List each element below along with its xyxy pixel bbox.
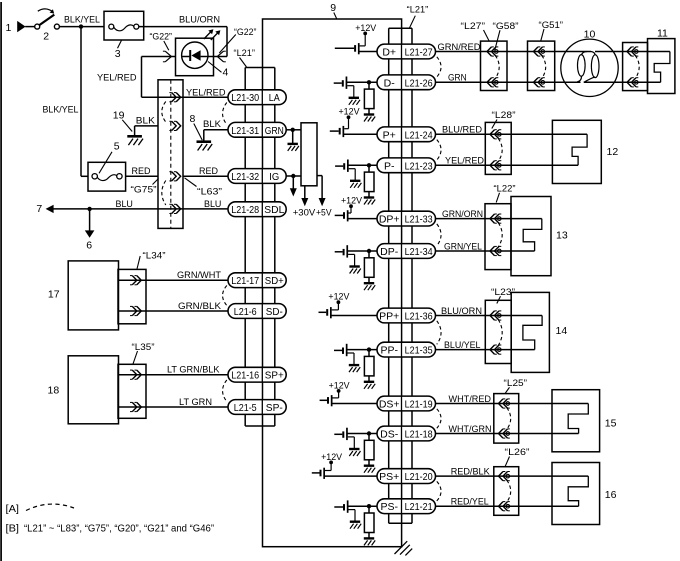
svg-text:PS-: PS- — [380, 501, 398, 513]
ground 8 — [190, 113, 213, 151]
svg-text:“G75”: “G75” — [131, 185, 157, 195]
chassis ground hatch — [395, 541, 413, 555]
wire BLU/ORN PP+ — [436, 306, 543, 316]
twisted pair arc SD+/SD- — [223, 286, 227, 306]
svg-text:BLK/YEL: BLK/YEL — [64, 15, 100, 25]
svg-text:GRN: GRN — [265, 125, 284, 137]
photocoupler 4 — [176, 29, 229, 78]
twisted pair arc — [437, 409, 441, 428]
connector G75/L63 column — [158, 80, 183, 229]
svg-text:“G58”: “G58” — [493, 21, 519, 31]
wire GRN/WHT — [118, 270, 228, 280]
wire RED/BLK — [436, 466, 589, 476]
svg-text:[B]: [B] — [6, 523, 20, 535]
wire RED/YEL — [436, 497, 579, 507]
svg-text:“G51”: “G51” — [539, 20, 564, 30]
connector L25 — [494, 378, 527, 443]
component 18 — [48, 356, 119, 424]
driver PP- with pulldown — [334, 344, 377, 372]
svg-text:WHT/GRN: WHT/GRN — [449, 424, 492, 434]
connector L34 — [118, 250, 166, 324]
svg-text:“L21” ~ “L83”, “G75”, “G20”, “: “L21” ~ “L83”, “G75”, “G20”, “G21” and “… — [24, 524, 215, 535]
driver DS+ with +12V supply — [320, 380, 377, 406]
wire LT GRN/BLK — [118, 365, 228, 375]
regulator box — [301, 123, 317, 186]
svg-text:“L28”: “L28” — [492, 110, 516, 120]
svg-text:+5V: +5V — [316, 208, 332, 218]
svg-text:8: 8 — [190, 113, 196, 125]
svg-text:SD-: SD- — [266, 306, 283, 318]
wire YEL/RED — [97, 57, 228, 98]
svg-text:PS+: PS+ — [379, 471, 399, 483]
svg-text:BLK/YEL: BLK/YEL — [43, 105, 79, 115]
connector L28 — [485, 110, 515, 174]
svg-text:16: 16 — [605, 489, 617, 501]
resistor pulldown D- — [364, 80, 375, 121]
svg-text:BLU/ORN: BLU/ORN — [441, 306, 482, 316]
connector G22 left chevron — [150, 32, 173, 62]
resistor pulldown DS- — [364, 431, 375, 472]
wire BLU/YEL — [436, 340, 535, 350]
wire D- right of generator — [584, 81, 661, 83]
svg-text:GRN/ORN: GRN/ORN — [442, 209, 483, 219]
svg-text:“L21”: “L21” — [234, 48, 256, 58]
svg-text:DS+: DS+ — [379, 399, 400, 411]
node 7 — [36, 203, 53, 215]
connector L26 — [494, 447, 530, 515]
terminal pill D- L21-26 — [377, 75, 436, 90]
svg-text:L21-35: L21-35 — [405, 345, 433, 357]
component 14 — [511, 292, 567, 372]
component 12 — [552, 120, 618, 183]
driver P+ with +12V supply — [330, 107, 377, 137]
svg-text:L21-18: L21-18 — [405, 429, 433, 441]
generator 10 — [561, 29, 618, 97]
driver P- with pulldown — [335, 160, 377, 188]
svg-text:4: 4 — [223, 67, 229, 79]
terminal pill DP+ L21-33 — [377, 211, 436, 226]
svg-text:+30V: +30V — [293, 208, 316, 218]
connector labels G75 L63 — [131, 178, 223, 197]
svg-text:D-: D- — [384, 77, 396, 89]
wire WHT/GRN — [436, 424, 579, 434]
+30V output — [293, 186, 316, 218]
svg-text:BLK: BLK — [136, 115, 156, 125]
terminal pill L21-32 IG — [228, 169, 286, 184]
svg-text:BLU/ORN: BLU/ORN — [179, 15, 220, 25]
terminal pill PS- L21-21 — [377, 499, 436, 514]
terminal pill L21-31 GRN — [228, 122, 286, 137]
svg-text:BLU: BLU — [204, 199, 221, 209]
terminal pill PP+ L21-36 — [377, 308, 436, 323]
connector L27/G58 — [461, 21, 519, 91]
resistor pulldown DP- — [364, 249, 375, 290]
svg-text:GRN/BLK: GRN/BLK — [178, 301, 222, 311]
svg-text:10: 10 — [584, 29, 596, 41]
terminal pill P+ L21-24 — [377, 127, 436, 142]
svg-text:L21-23: L21-23 — [405, 160, 433, 172]
wire BLK/YEL top — [59, 15, 104, 29]
ground 19 — [113, 110, 143, 146]
svg-text:“L35”: “L35” — [132, 342, 155, 352]
connector L23 — [485, 287, 515, 364]
svg-text:PP+: PP+ — [379, 311, 399, 323]
driver PS- with pulldown — [334, 500, 377, 528]
svg-text:L21-34: L21-34 — [405, 246, 433, 258]
svg-text:YEL/RED: YEL/RED — [97, 73, 137, 83]
terminal pill P- L21-23 — [377, 158, 436, 173]
legend B — [6, 523, 215, 535]
svg-text:17: 17 — [48, 288, 60, 300]
svg-text:+12V: +12V — [341, 196, 363, 206]
svg-text:SD+: SD+ — [265, 275, 284, 287]
svg-text:BLU/YEL: BLU/YEL — [444, 340, 481, 350]
wire GRN/BLK — [118, 301, 228, 311]
svg-text:GRN: GRN — [448, 72, 467, 82]
svg-text:2: 2 — [43, 31, 49, 43]
twisted pair arc SP+/SP- — [223, 380, 227, 402]
driver PP+ with +12V supply — [319, 292, 378, 319]
svg-text:L21-24: L21-24 — [405, 129, 433, 141]
svg-text:“L63”: “L63” — [197, 187, 222, 197]
svg-text:L21-31: L21-31 — [231, 125, 259, 137]
svg-text:“L34”: “L34” — [143, 250, 166, 260]
wire RED — [126, 166, 228, 176]
svg-text:6: 6 — [86, 240, 92, 252]
wire BLK left — [135, 115, 158, 126]
resistor pulldown P- — [364, 163, 375, 204]
driver DS- with pulldown — [334, 428, 377, 456]
driver DP+ with +12V supply — [335, 196, 377, 222]
svg-text:BLU: BLU — [116, 199, 133, 209]
svg-text:RED/BLK: RED/BLK — [451, 466, 491, 476]
svg-text:3: 3 — [115, 48, 121, 60]
svg-text:11: 11 — [657, 28, 668, 40]
svg-text:RED/YEL: RED/YEL — [451, 497, 489, 507]
driver D- with pulldown — [334, 77, 377, 105]
svg-text:L21-32: L21-32 — [231, 171, 259, 183]
svg-text:+12V: +12V — [329, 380, 351, 390]
svg-text:WHT/RED: WHT/RED — [449, 394, 492, 404]
connector L22 — [485, 184, 516, 270]
svg-text:IG: IG — [269, 171, 279, 183]
connector L35 — [118, 342, 155, 419]
svg-text:“L22”: “L22” — [494, 184, 516, 194]
svg-text:5: 5 — [114, 141, 120, 153]
svg-text:9: 9 — [330, 2, 336, 14]
svg-text:1: 1 — [6, 22, 12, 34]
terminal pill DS- L21-18 — [377, 426, 436, 441]
border frame left edge — [0, 2, 2, 561]
driver DP- with pulldown — [335, 245, 377, 273]
switch 2 — [35, 9, 60, 43]
driver D+ with +12V supply — [335, 23, 377, 55]
svg-text:SP-: SP- — [266, 402, 283, 414]
svg-text:L21-16: L21-16 — [231, 370, 259, 382]
terminal pill DS+ L21-19 — [377, 396, 436, 411]
wire GRN/RED — [436, 42, 592, 52]
svg-text:[A]: [A] — [6, 503, 20, 515]
wire GRN — [436, 72, 581, 82]
connector for component 11 — [623, 43, 648, 91]
connector L21 right column — [389, 4, 429, 523]
svg-text:13: 13 — [556, 230, 568, 242]
component 16 — [552, 463, 617, 525]
component 15 — [552, 390, 617, 452]
ECU box 9 — [263, 2, 402, 547]
svg-text:PP-: PP- — [380, 345, 398, 357]
twisted pair arc LA/GRN — [223, 103, 227, 125]
svg-text:D+: D+ — [382, 47, 396, 59]
GRN pin pulldown — [286, 128, 301, 151]
svg-text:L21-19: L21-19 — [405, 399, 433, 411]
svg-text:L21-33: L21-33 — [405, 214, 433, 226]
svg-text:LA: LA — [269, 92, 280, 104]
terminal pill L21-30 LA — [228, 90, 286, 105]
svg-text:L21-26: L21-26 — [405, 77, 433, 89]
svg-text:L21-6: L21-6 — [234, 306, 257, 318]
fuse 3 — [104, 11, 144, 60]
component 17 — [48, 261, 119, 330]
svg-text:BLU/RED: BLU/RED — [442, 125, 482, 135]
twisted pair arc — [437, 57, 441, 77]
terminal pill PS+ L21-20 — [377, 469, 436, 484]
svg-text:GRN/RED: GRN/RED — [438, 42, 481, 52]
svg-text:7: 7 — [36, 203, 42, 215]
twisted pair arc — [437, 140, 441, 160]
svg-text:LT GRN/BLK: LT GRN/BLK — [167, 365, 220, 375]
switch 5 — [88, 141, 126, 192]
svg-text:DP+: DP+ — [379, 214, 400, 226]
svg-text:18: 18 — [48, 385, 60, 397]
svg-text:YEL/RED: YEL/RED — [445, 156, 484, 166]
svg-text:“G22”: “G22” — [150, 32, 173, 42]
terminal pill L21-5 SP- — [228, 400, 286, 415]
twisted pair arc — [437, 481, 441, 501]
svg-text:DS-: DS- — [380, 429, 399, 441]
wire WHT/RED — [436, 394, 589, 404]
connector L21 left column — [234, 48, 275, 426]
resistor pulldown PP- — [364, 347, 375, 388]
svg-text:LT GRN: LT GRN — [179, 397, 212, 407]
svg-text:+12V: +12V — [355, 23, 377, 33]
terminal pill L21-6 SD- — [228, 304, 286, 319]
driver PS+ with +12V supply — [312, 452, 377, 479]
wire YEL/RED P- — [436, 156, 579, 166]
terminal pill DP- L21-34 — [377, 244, 436, 259]
svg-text:15: 15 — [605, 418, 617, 430]
wire BLU — [53, 199, 228, 211]
terminal pill D+ L21-27 — [377, 44, 436, 59]
wire LT GRN — [118, 397, 228, 407]
twisted pair arc — [437, 321, 441, 345]
component 13 — [511, 197, 568, 276]
svg-text:“L27”: “L27” — [461, 21, 486, 31]
wire BLK right — [203, 119, 228, 130]
svg-text:P+: P+ — [383, 129, 396, 141]
svg-text:YEL/RED: YEL/RED — [186, 88, 226, 98]
wire BLU/ORN — [139, 15, 227, 57]
legend A — [6, 503, 75, 515]
svg-text:RED: RED — [132, 166, 151, 176]
connector G22 right chevron — [217, 27, 256, 62]
terminal pill L21-28 SDL — [228, 202, 286, 217]
wire GRN/ORN — [436, 209, 542, 219]
svg-text:L21-17: L21-17 — [231, 275, 259, 287]
svg-text:RED: RED — [199, 166, 218, 176]
twisted pair arc — [437, 224, 441, 246]
svg-text:SP+: SP+ — [265, 370, 284, 382]
svg-text:14: 14 — [556, 325, 568, 337]
svg-text:+12V: +12V — [339, 107, 361, 117]
node 1 — [6, 21, 35, 34]
component 11 — [648, 28, 675, 94]
wire BLU/RED — [436, 125, 588, 135]
svg-text:L21-5: L21-5 — [234, 402, 257, 414]
svg-text:GRN/YEL: GRN/YEL — [444, 241, 482, 251]
svg-text:L21-28: L21-28 — [231, 204, 259, 216]
svg-text:DP-: DP- — [380, 246, 399, 258]
terminal pill L21-16 SP+ — [228, 367, 286, 382]
svg-text:“L26”: “L26” — [505, 447, 530, 457]
+5V output — [316, 176, 332, 218]
connector G51 — [528, 20, 564, 91]
svg-text:L21-30: L21-30 — [231, 92, 259, 104]
svg-text:P-: P- — [384, 160, 395, 172]
svg-text:L21-20: L21-20 — [405, 471, 433, 483]
IG pin wire — [286, 174, 301, 197]
svg-text:BLK: BLK — [203, 119, 222, 129]
svg-text:12: 12 — [607, 146, 619, 158]
wire GRN/YEL — [436, 241, 535, 251]
terminal pill L21-17 SD+ — [228, 273, 286, 288]
terminal pill PP- L21-35 — [377, 342, 436, 357]
resistor pulldown PS- — [364, 504, 375, 545]
svg-text:+12V: +12V — [328, 292, 350, 302]
svg-text:SDL: SDL — [264, 204, 284, 216]
wire D+ right of generator — [595, 51, 670, 53]
svg-text:L21-27: L21-27 — [405, 47, 433, 59]
svg-text:+12V: +12V — [321, 452, 343, 462]
node 6 — [85, 209, 95, 252]
svg-text:“G22”: “G22” — [234, 27, 257, 37]
wire BLK/YEL left — [43, 27, 89, 177]
svg-text:GRN/WHT: GRN/WHT — [177, 270, 221, 280]
svg-text:L21-36: L21-36 — [405, 311, 433, 323]
svg-text:“L25”: “L25” — [504, 378, 528, 388]
svg-text:“L21”: “L21” — [407, 4, 429, 14]
svg-text:L21-21: L21-21 — [405, 501, 433, 513]
